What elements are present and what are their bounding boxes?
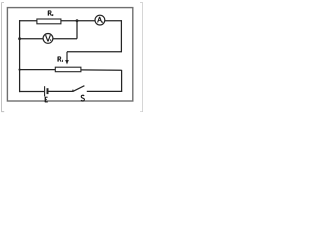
wire rheostat row right bbox=[81, 69, 122, 71]
wire right vertical lower bbox=[121, 70, 123, 92]
page bracket left bbox=[2, 3, 5, 112]
wire slider horizontal bbox=[67, 51, 122, 53]
switch S blade bbox=[73, 86, 85, 92]
ammeter A1 bbox=[95, 15, 105, 25]
node junction dot (voltmeter top tap) bbox=[76, 19, 79, 22]
wire bottom left bbox=[19, 91, 44, 93]
rheostat slider arrow bbox=[66, 52, 68, 61]
node junction dot (rheostat left tap) bbox=[19, 69, 21, 71]
battery E short plate bbox=[47, 88, 49, 94]
wire bottom right (switch to corner) bbox=[87, 90, 122, 92]
wire rheostat row left bbox=[20, 69, 56, 71]
wire top left bbox=[19, 20, 37, 22]
wire bottom middle (battery to switch) bbox=[48, 90, 73, 92]
label R (with subscript x) bbox=[48, 11, 53, 16]
label S bbox=[81, 95, 84, 101]
wire top right (ammeter to corner) bbox=[105, 20, 122, 22]
voltmeter V1 bbox=[43, 34, 53, 44]
wire right vertical upper bbox=[120, 20, 122, 52]
resistor R box bbox=[37, 19, 61, 24]
wire top middle (R to ammeter) bbox=[61, 20, 96, 22]
border frame bbox=[7, 8, 132, 101]
label R1 bbox=[58, 57, 63, 62]
battery E long plate bbox=[44, 86, 46, 96]
rheostat R1 box bbox=[55, 67, 81, 72]
switch S pivot tick bbox=[72, 90, 74, 92]
wire voltmeter left bbox=[20, 38, 44, 40]
wire voltmeter right bbox=[53, 38, 77, 40]
node junction dot (voltmeter left tap) bbox=[18, 37, 21, 40]
wire left vertical bbox=[19, 20, 21, 92]
label E bbox=[45, 97, 48, 102]
wire junction vertical (node to top) bbox=[76, 20, 78, 38]
page bracket right bbox=[140, 3, 143, 112]
